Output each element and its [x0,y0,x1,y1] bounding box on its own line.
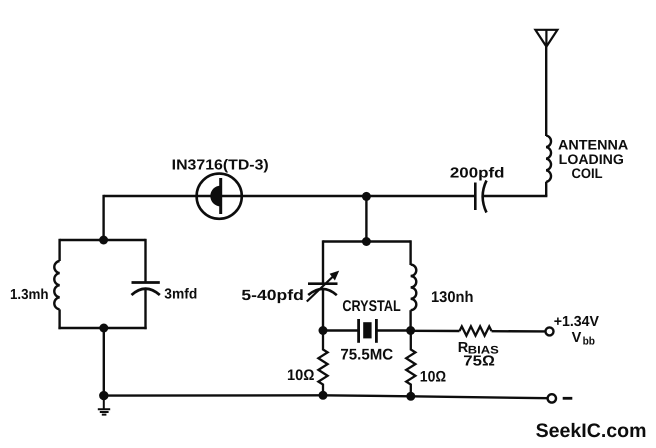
ground symbol [98,396,110,415]
node: crystal row right junction [406,326,415,335]
node: bottom rail right junction [406,392,415,401]
svg-text:ANTENNA: ANTENNA [558,137,628,152]
wire: left tank top side [60,239,146,241]
node: ground junction [99,391,108,400]
wire: oscillator box top side [323,240,411,242]
svg-text:LOADING: LOADING [559,152,624,167]
label minus [563,397,573,400]
svg-text:5-40pfd: 5-40pfd [241,288,303,304]
wire: left tank right side upper [144,239,146,284]
crystal Y1 body [363,322,371,338]
svg-text:130nh: 130nh [431,289,474,306]
wire: left tank bottom side [58,327,146,329]
variable capacitor C3 5-40pfd curved plate [308,289,337,295]
wire: bottom ground rail [104,395,548,398]
tunnel diode D1 circle [197,174,242,219]
wire: left tank right side lower [144,289,146,329]
resistor R1 10ohm left [318,331,327,396]
svg-text:75.5MC: 75.5MC [340,346,393,363]
svg-text:bb: bb [583,336,596,348]
node: oscillator box top junction [362,237,371,246]
antenna symbol [535,30,557,47]
capacitor C2 200pfd left plate [474,183,477,211]
wire: riser from main rail corner to left tank top [102,195,104,240]
terminal: +1.34V Vbb [546,327,554,335]
crystal Y1 left plate [357,319,360,343]
svg-text:3mfd: 3mfd [164,287,197,303]
wire: main top rail left segment [104,195,475,197]
svg-text:V: V [572,330,582,346]
variable capacitor C3 5-40pfd straight plate [308,282,338,285]
wire: coil to corner [545,182,547,196]
svg-text:10Ω: 10Ω [287,367,315,384]
wire: left tank left side upper [58,239,60,261]
terminal: minus [548,394,556,402]
inductor L3 130nh [411,265,417,311]
node: bottom rail left junction [319,391,328,400]
inductor L2 antenna loading coil [546,136,551,182]
capacitor C2 200pfd right curved plate [483,181,487,213]
wire: oscillator box right side lower [409,310,411,330]
inductor L1 1.3mh [54,261,59,309]
node: top junction to oscillator section [362,192,371,201]
wire: oscillator box left side upper [322,240,324,284]
svg-text:1.3mh: 1.3mh [10,287,49,303]
wire: oscillator box left side lower [322,289,324,330]
variable capacitor C3 arrow [307,277,333,302]
capacitor C1 3mfd curved plate [132,289,160,295]
svg-text:COIL: COIL [572,166,603,181]
wire: riser main rail to oscillator box [365,196,367,241]
svg-text:CRYSTAL: CRYSTAL [342,298,400,315]
svg-text:75Ω: 75Ω [463,354,495,370]
resistor R2 10ohm right [406,331,415,397]
wire: oscillator box right side upper [409,240,411,265]
svg-text:10Ω: 10Ω [420,368,447,385]
tunnel diode D1 cathode bar [219,178,222,214]
wire: crystal row left lead [323,329,358,331]
node: left tank top junction [99,236,108,245]
wire: main top rail right segment (cap to antenna corner) [482,195,548,197]
node: crystal row left junction [319,326,328,335]
svg-text:200pfd: 200pfd [450,166,505,182]
wire: crystal row right lead [376,329,410,331]
wire: bias lead from crystal row [411,330,460,333]
resistor R3 RBIAS 75ohm [460,326,492,335]
capacitor C1 3mfd straight plate [132,281,160,284]
crystal Y1 right plate [375,319,378,343]
wire: bias lead to terminal [492,330,546,333]
wire: antenna lead down [545,46,547,137]
svg-text:IN3716(TD-3): IN3716(TD-3) [172,157,269,173]
svg-text:SeekIC.com: SeekIC.com [536,420,647,442]
node: left tank bottom junction [99,324,108,333]
tunnel diode D1 anode half-disc [210,186,220,207]
wire: left tank left side lower [58,309,60,329]
svg-text:+1.34V: +1.34V [554,314,600,330]
wire: left tank bottom to ground rail [103,328,105,396]
